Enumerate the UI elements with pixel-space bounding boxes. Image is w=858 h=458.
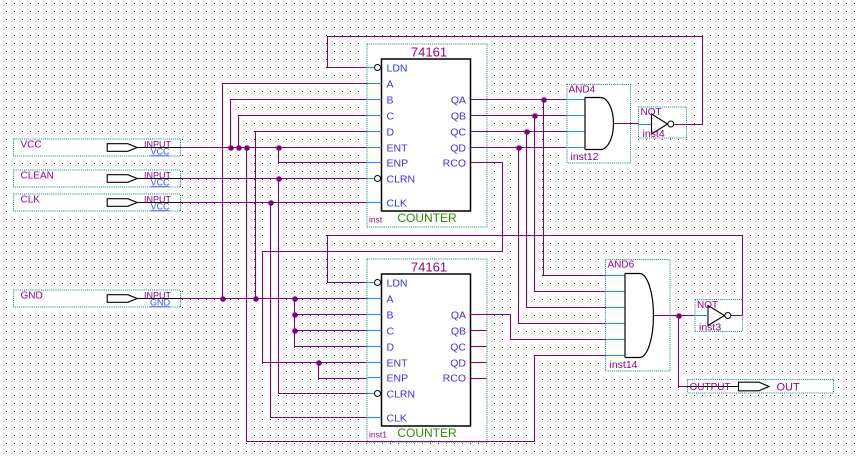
output pin OUT <box>686 378 834 394</box>
counter inst1 input pin D <box>367 342 395 354</box>
svg-text:OUT: OUT <box>777 382 801 394</box>
counter inst input pin CLK <box>367 198 407 210</box>
AND6 input stub 2 <box>606 291 625 293</box>
junction AND6 output / OUT branch <box>676 313 682 319</box>
svg-text:A: A <box>387 294 394 306</box>
svg-text:RCO: RCO <box>443 373 466 385</box>
svg-text:D: D <box>387 127 395 139</box>
wire GND to A of inst1 <box>181 298 367 300</box>
svg-text:GND: GND <box>21 291 43 302</box>
svg-text:CLK: CLK <box>387 413 407 425</box>
AND6 input stub 1 <box>606 275 625 277</box>
input pin VCC <box>12 138 181 157</box>
junction VCC / C riser <box>236 145 242 151</box>
wire A of inst to GND net <box>223 84 367 299</box>
svg-text:ENT: ENT <box>387 358 409 370</box>
counter inst output pin QD <box>450 143 466 155</box>
svg-text:VCC: VCC <box>150 177 170 187</box>
wire NOT inst3 output feedback to LDN of inst1 <box>328 236 743 316</box>
4-input AND gate AND4 inst12 <box>566 83 632 164</box>
wire QC riser to AND6 input 3 <box>527 132 606 308</box>
svg-text:COUNTER: COUNTER <box>397 426 457 440</box>
svg-text:74161: 74161 <box>411 260 447 275</box>
counter inst1 input pin C <box>367 326 395 338</box>
junction QA <box>541 97 547 103</box>
wire AND4 output to NOT inst4 <box>614 123 639 125</box>
input pin CLEAN <box>12 169 181 188</box>
counter inst1 output pin QC <box>450 342 466 354</box>
NOT gate inst3 <box>694 298 744 333</box>
svg-text:CLK: CLK <box>387 198 407 210</box>
AND4 input stub 2 <box>567 115 585 117</box>
NOT inst4 input stub <box>639 124 652 126</box>
svg-text:ENP: ENP <box>387 158 409 170</box>
svg-text:LDN: LDN <box>387 278 408 290</box>
junction ENT/ENP branch <box>316 360 322 366</box>
svg-text:B: B <box>387 95 394 107</box>
svg-text:QB: QB <box>451 111 466 123</box>
svg-text:inst12: inst12 <box>571 151 599 163</box>
svg-text:QC: QC <box>450 127 466 139</box>
svg-text:LDN: LDN <box>387 63 408 75</box>
wire GND riser to B C D of inst1 <box>295 299 367 347</box>
svg-text:74161: 74161 <box>411 45 447 60</box>
junction CLK riser <box>268 200 274 206</box>
wire QB riser to AND6 input 2 <box>535 116 606 292</box>
junction VCC riser <box>244 145 250 151</box>
svg-text:CLRN: CLRN <box>387 174 416 186</box>
stub RCO of inst1 <box>471 378 487 380</box>
input pin GND <box>12 289 181 308</box>
svg-text:NOT: NOT <box>641 107 662 118</box>
stub QC of inst1 <box>471 346 487 348</box>
wire QD riser to AND6 input 4 <box>519 148 606 324</box>
svg-text:QD: QD <box>450 143 466 155</box>
svg-text:COUNTER: COUNTER <box>397 211 457 225</box>
counter inst1 input pin CLK <box>367 413 407 425</box>
counter inst1 input pin ENP <box>367 373 409 385</box>
svg-text:C: C <box>387 111 395 123</box>
junction QC <box>524 129 530 135</box>
svg-text:inst14: inst14 <box>610 359 638 371</box>
svg-text:CLEAN: CLEAN <box>21 171 54 182</box>
counter inst input pin A <box>367 79 394 91</box>
junction QD <box>516 145 522 151</box>
svg-text:GND: GND <box>150 297 171 307</box>
wire D of inst to GND net <box>256 132 367 299</box>
6-input AND gate AND6 inst14 <box>604 258 671 372</box>
wire ENP of inst to VCC net <box>279 148 367 163</box>
AND4 input stub 1 <box>567 99 585 101</box>
wire AND6 output to NOT inst3 <box>654 315 695 317</box>
svg-text:QD: QD <box>450 358 466 370</box>
junction VCC / B riser <box>228 145 234 151</box>
svg-text:VCC: VCC <box>150 146 170 156</box>
svg-text:QB: QB <box>451 326 466 338</box>
junction GND riser / B <box>292 312 298 318</box>
74161 counter inst symbol box <box>366 43 488 228</box>
counter inst input pin LDN <box>367 63 408 75</box>
counter inst output pin QA <box>451 95 466 107</box>
AND4 input stub 3 <box>567 131 585 133</box>
counter inst output pin QC <box>450 127 466 139</box>
svg-text:CLK: CLK <box>21 195 41 206</box>
AND6 input stub 6 <box>606 355 625 357</box>
svg-text:RCO: RCO <box>443 158 466 170</box>
counter inst1 output pin QA <box>451 310 466 322</box>
svg-text:inst4: inst4 <box>643 128 665 140</box>
counter inst1 input pin A <box>367 294 394 306</box>
wire CLK to CLK of inst <box>181 202 367 204</box>
wire VCC riser to AND6 input 6 <box>247 148 606 442</box>
wire QA riser to AND6 input 1 <box>544 100 606 276</box>
wire CLEAN riser to CLRN of inst1 <box>279 179 367 394</box>
counter inst input pin ENP <box>367 158 409 170</box>
counter inst1 input pin ENT <box>367 358 409 370</box>
wire RCO branch to ENP of inst1 <box>319 363 367 379</box>
junction GND / A riser <box>220 296 226 302</box>
wire B of inst to VCC net <box>231 100 367 148</box>
svg-text:AND4: AND4 <box>569 85 596 96</box>
svg-text:C: C <box>387 326 395 338</box>
AND6 input stub 5 <box>606 339 625 341</box>
counter inst input pin B <box>367 95 394 107</box>
input pin CLK <box>12 193 181 212</box>
counter inst input pin D <box>367 127 395 139</box>
svg-text:QC: QC <box>450 342 466 354</box>
wire NOT inst4 output feedback to LDN of inst <box>328 37 703 125</box>
74161 counter inst1 symbol box <box>366 258 488 443</box>
svg-text:QA: QA <box>451 310 466 322</box>
svg-text:CLRN: CLRN <box>387 389 416 401</box>
svg-text:D: D <box>387 342 395 354</box>
wire C of inst to VCC net <box>239 116 367 148</box>
svg-text:inst: inst <box>369 215 383 225</box>
wire CLEAN to CLRN of inst <box>181 178 367 180</box>
svg-text:VCC: VCC <box>21 140 42 151</box>
wire QA of inst1 to AND6 input 5 <box>471 315 606 340</box>
svg-text:AND6: AND6 <box>608 260 635 271</box>
wire QB of inst to AND4 input 2 <box>471 115 567 117</box>
junction GND / D riser <box>253 296 259 302</box>
counter inst input pin ENT <box>367 143 409 155</box>
stub QB of inst1 <box>471 330 487 332</box>
svg-text:ENT: ENT <box>387 143 409 155</box>
NOT inst3 input stub <box>695 315 709 317</box>
counter inst input pin C <box>367 111 395 123</box>
counter inst output pin RCO <box>443 158 466 170</box>
svg-text:inst1: inst1 <box>369 430 387 440</box>
stub QD of inst1 <box>471 362 487 364</box>
junction GND riser / C <box>292 328 298 334</box>
svg-text:ENP: ENP <box>387 373 409 385</box>
svg-text:QA: QA <box>451 95 466 107</box>
AND6 input stub 4 <box>606 323 625 325</box>
counter inst1 input pin LDN <box>367 278 408 290</box>
wire GND riser to C of inst1 <box>295 330 367 332</box>
junction QB <box>532 113 538 119</box>
wire QA of inst to AND4 input 1 <box>471 99 567 101</box>
wire CLK riser to CLK of inst1 <box>271 203 367 418</box>
wire VCC to ENT of inst <box>181 147 367 149</box>
counter inst input pin CLRN <box>367 174 416 186</box>
wire QD of inst to AND4 input 4 <box>471 147 567 149</box>
wire RCO of inst to ENT of inst1 <box>263 163 503 363</box>
NOT gate inst4 <box>637 106 687 140</box>
counter inst1 output pin RCO <box>443 373 466 385</box>
AND4 input stub 4 <box>567 147 585 149</box>
AND6 input stub 3 <box>606 307 625 309</box>
svg-text:NOT: NOT <box>697 300 718 311</box>
svg-text:inst3: inst3 <box>699 322 721 334</box>
counter inst1 output pin QD <box>450 358 466 370</box>
svg-text:B: B <box>387 310 394 322</box>
counter inst1 output pin QB <box>451 326 466 338</box>
counter inst output pin QB <box>451 111 466 123</box>
junction GND riser <box>292 296 298 302</box>
svg-text:VCC: VCC <box>150 201 170 211</box>
svg-text:OUTPUT: OUTPUT <box>690 382 731 393</box>
junction VCC / ENP drop <box>276 145 282 151</box>
wire GND riser to B of inst1 <box>295 314 367 316</box>
wire OUT branch to OUTPUT pin <box>679 316 688 387</box>
counter inst1 input pin CLRN <box>367 389 416 401</box>
svg-text:A: A <box>387 79 394 91</box>
wire QC of inst to AND4 input 3 <box>471 131 567 133</box>
counter inst1 input pin B <box>367 310 394 322</box>
junction CLEAN riser <box>276 176 282 182</box>
